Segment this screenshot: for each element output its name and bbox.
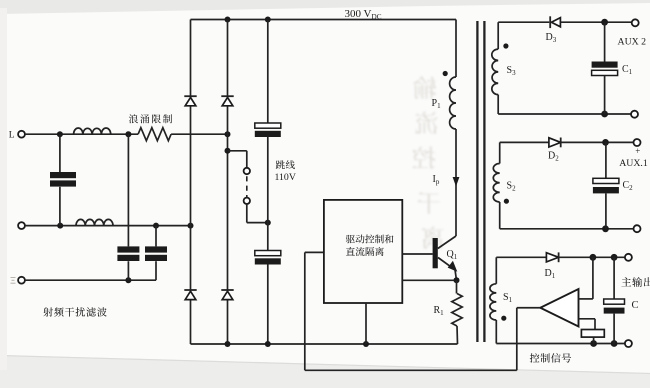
- wire S2 bottom: [500, 228, 637, 230]
- inductor N-line filter choke: [76, 219, 113, 225]
- op-amp error amplifier: [540, 289, 578, 327]
- wire L line to bridge leg2: [171, 133, 227, 135]
- resistor R1: [456, 280, 458, 293]
- terminal jumper switch top: [244, 168, 250, 174]
- capacitor C2: [605, 142, 607, 178]
- wire jumper horizontal: [228, 150, 247, 152]
- diode D3: [549, 16, 551, 28]
- transformer core: [476, 21, 478, 342]
- svg-text:C: C: [632, 300, 639, 311]
- node jumper takeoff: [225, 148, 231, 154]
- winding P1 primary: [450, 77, 456, 129]
- op-amp feedback left vertical + control return: [304, 252, 306, 370]
- wire bridge leg1 vertical: [190, 20, 192, 97]
- label jumper 跳线 110V: [276, 160, 295, 169]
- node top rail junction V3: [265, 17, 271, 23]
- diode D2: [549, 138, 561, 147]
- node emitter junction: [454, 277, 460, 283]
- winding S1: [495, 257, 497, 284]
- node rail box ground: [363, 341, 369, 347]
- terminal AUX1 return: [634, 225, 641, 232]
- node S2 dot mark: [504, 199, 509, 204]
- wire feedback resistor to rail: [593, 337, 595, 343]
- wire emitter return: [402, 279, 456, 281]
- wire primary to collector: [455, 129, 457, 236]
- wire op-amp input top: [579, 298, 593, 300]
- wire S2 top: [500, 141, 549, 143]
- node L-capA: [125, 131, 131, 137]
- wire L line: [25, 133, 138, 135]
- wire op-amp output: [517, 307, 541, 309]
- left page edge shading: [0, 8, 7, 370]
- terminal main plus: [625, 254, 632, 261]
- node jumper to V3: [265, 220, 271, 226]
- svg-text:AUX 2: AUX 2: [618, 37, 647, 48]
- terminal jumper switch bottom: [244, 198, 250, 204]
- wire primary feed vertical: [455, 20, 457, 78]
- node S3 dot mark: [503, 43, 508, 48]
- node C2 top: [602, 139, 609, 146]
- label RF filter 射频干扰滤波: [43, 307, 106, 316]
- node main bottom A: [590, 340, 597, 347]
- svg-text:110V: 110V: [275, 172, 296, 183]
- winding S3: [497, 22, 499, 49]
- wire box bottom to rail: [365, 303, 367, 344]
- wire bulk cap leg vertical: [267, 20, 269, 124]
- node top rail junction V2: [225, 17, 231, 23]
- label main output 主输出: [621, 277, 650, 287]
- wire jumper dashed: [246, 176, 248, 197]
- svg-text:AUX.1: AUX.1: [619, 158, 648, 169]
- capacitor C main: [613, 257, 615, 299]
- node primary dot mark: [443, 71, 448, 76]
- label control signal 控制信号: [530, 353, 571, 363]
- capacitor X line-to-line: [50, 172, 76, 178]
- wire S3 bottom: [498, 113, 634, 115]
- block drive control box: [324, 200, 402, 303]
- terminal AUX1 plus: [634, 139, 641, 146]
- wire box left input: [305, 251, 324, 253]
- resistor feedback box: [581, 330, 604, 338]
- wire bridge leg2 vertical: [227, 20, 229, 97]
- wire capA bottom: [127, 261, 129, 280]
- node C1 bottom: [601, 111, 608, 118]
- capacitor Y A (L to E): [117, 246, 139, 252]
- terminal N: [18, 222, 25, 229]
- node rail leg3: [265, 341, 271, 347]
- resistor surge limiter 浪涌限制: [138, 128, 171, 141]
- label 直流隔离: [346, 247, 384, 256]
- node E-capA: [125, 277, 131, 283]
- node main bottom B: [611, 340, 618, 347]
- terminal AUX2 return: [631, 111, 638, 118]
- winding S2: [499, 142, 501, 163]
- node N-Cx1: [57, 223, 63, 229]
- node L-Cx1: [57, 131, 63, 137]
- node S1 dot mark: [501, 316, 506, 321]
- capacitor bulk C lower 110V: [255, 251, 281, 256]
- node rail leg2: [225, 341, 231, 347]
- transistor Q1: [438, 236, 456, 249]
- arrow Ip current: [453, 177, 460, 187]
- diode bridge top-left: [184, 95, 196, 97]
- capacitor Y B (N to E): [145, 246, 167, 252]
- node L to V2: [225, 131, 231, 137]
- wire S3 top: [498, 21, 549, 23]
- wire capA top (crosses N): [127, 134, 129, 246]
- svg-text:+: +: [635, 146, 640, 156]
- wire S1 top: [496, 256, 546, 258]
- node main top B: [611, 254, 618, 261]
- wire E line: [25, 279, 156, 281]
- wire capB top: [155, 226, 157, 247]
- bleedthrough ghost text: [412, 76, 444, 249]
- wire top +300V rail: [191, 19, 457, 21]
- wire L to cap: [59, 134, 61, 172]
- node C2 bottom: [602, 225, 609, 232]
- wire op-amp input bottom: [579, 318, 596, 320]
- diode bridge top-right: [221, 95, 233, 97]
- wire bottom rail: [191, 343, 458, 345]
- node N-capB: [153, 223, 159, 229]
- svg-text:L: L: [9, 130, 15, 140]
- terminal AUX2 plus: [632, 19, 639, 26]
- diode bridge bottom-left: [184, 289, 196, 291]
- wire jumper to cap midpoint: [246, 204, 248, 222]
- terminal E: [18, 277, 25, 284]
- node N to bridge leg1: [188, 223, 194, 229]
- terminal L: [18, 131, 25, 138]
- wire N line: [25, 225, 191, 227]
- terminal main return: [625, 340, 632, 347]
- capacitor C1: [604, 22, 606, 61]
- node D3 out: [601, 19, 608, 26]
- label E tick mark: [11, 277, 16, 279]
- label 驱动控制和: [346, 234, 394, 243]
- wire base drive: [402, 253, 432, 255]
- diode bridge bottom-right: [221, 289, 233, 291]
- capacitor bulk C upper 110V: [255, 123, 281, 128]
- wire S1 bottom: [496, 343, 628, 345]
- node main top A: [590, 254, 597, 261]
- wire capB bottom: [155, 261, 157, 280]
- inductor L-line filter choke: [74, 128, 111, 134]
- diode D1: [546, 253, 558, 262]
